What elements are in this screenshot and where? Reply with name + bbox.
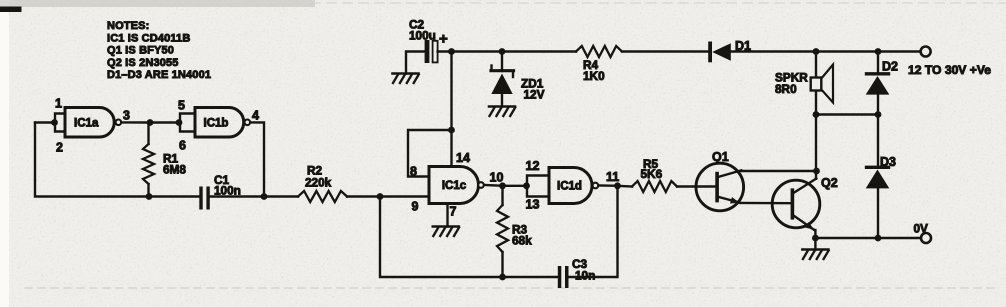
label R1 [163, 152, 186, 177]
node 3 junction [147, 119, 154, 126]
svg-text:14: 14 [456, 151, 470, 165]
pin 4 [252, 109, 259, 123]
wire D1 to +Ve terminal [731, 50, 921, 52]
wire node3 to IC1b [150, 121, 180, 123]
resistor R4 [576, 46, 622, 57]
svg-text:IC1b: IC1b [204, 118, 229, 130]
wire node10 to IC1d [503, 185, 528, 187]
label R5 [641, 157, 663, 181]
svg-text:12V: 12V [524, 88, 545, 102]
op-amp gate IC1c [429, 167, 484, 204]
pin 11 [606, 170, 619, 184]
ground IC1c pin7 [433, 227, 459, 237]
svg-text:D3: D3 [880, 155, 896, 169]
op-amp gate IC1b [195, 108, 250, 138]
pin 2 [56, 141, 63, 155]
label Q1 [712, 150, 729, 164]
zener diode ZD1 [491, 52, 514, 107]
svg-text:68k: 68k [512, 234, 532, 248]
wire node11 down to C3 [569, 186, 618, 277]
label D2 [882, 60, 898, 74]
pin 13 [526, 198, 540, 212]
resistor R2 [298, 191, 347, 202]
pin 6 [179, 139, 186, 153]
svg-text:1: 1 [55, 97, 62, 111]
node D3 bottom junction [875, 235, 882, 242]
svg-text:5: 5 [178, 99, 185, 113]
pin 10 [490, 171, 504, 185]
svg-text:IC1c: IC1c [442, 180, 467, 192]
op-amp gate IC1d [549, 168, 598, 204]
label R2 [305, 164, 332, 190]
label D1 [735, 39, 751, 53]
node IC1b output junction [261, 193, 268, 200]
node IC1b input junction [176, 119, 183, 126]
svg-text:100u: 100u [409, 29, 436, 43]
diode D3 [866, 115, 890, 239]
wire IC1a output [122, 121, 151, 123]
svg-text:Q1 IS BFY50: Q1 IS BFY50 [107, 45, 174, 57]
svg-text:12 TO 30V +Ve: 12 TO 30V +Ve [908, 63, 991, 77]
wire IC1a input bracket [55, 114, 65, 132]
node 10 junction [499, 182, 506, 189]
wire IC1b input bracket [180, 114, 195, 132]
wire R5 to Q1 base [677, 185, 716, 187]
label R3 [512, 223, 532, 248]
terminal +Ve [921, 47, 931, 57]
node IC1d input junction [523, 182, 530, 189]
svg-text:0V: 0V [914, 222, 929, 236]
node D2 top junction [875, 48, 882, 55]
svg-text:5K6: 5K6 [641, 167, 663, 181]
wire Q2 emitter to 0V [814, 230, 816, 238]
svg-text:D1–D3 ARE 1N4001: D1–D3 ARE 1N4001 [107, 69, 211, 81]
svg-text:D2: D2 [882, 60, 898, 74]
svg-text:3: 3 [123, 109, 130, 123]
node speaker top junction [813, 48, 820, 55]
resistor R3 [497, 186, 508, 277]
node 9 junction [377, 193, 384, 200]
svg-text:8R0: 8R0 [775, 82, 797, 96]
pin 12 [526, 159, 540, 173]
svg-text:Q1: Q1 [712, 150, 729, 164]
wire 0V rail [815, 237, 921, 239]
wire Q1 collector rail [741, 170, 817, 172]
node pin14 junction [448, 127, 455, 134]
diode D2 [866, 52, 890, 115]
wire left vertical feedback [35, 123, 199, 197]
label +Ve supply [908, 63, 991, 77]
wire pin7 ground stub [446, 204, 448, 227]
wire C2 ground stub [406, 52, 425, 74]
resistor R1 [143, 123, 154, 197]
svg-text:IC1a: IC1a [74, 118, 99, 130]
label SPKR [775, 71, 808, 97]
capacitor C2 [425, 40, 438, 63]
wire IC1d output [599, 184, 618, 187]
wire R2 to pin9 [347, 195, 429, 197]
wire supply to pins 14 and 8 [408, 52, 452, 177]
node R3 bottom junction [499, 274, 506, 281]
label C2 plus [439, 31, 448, 48]
node speaker bottom junction [813, 111, 820, 118]
wire C1 to R2 [210, 195, 298, 197]
label ZD1 [521, 77, 545, 102]
pin 7 [450, 205, 457, 219]
svg-text:Q2: Q2 [821, 176, 838, 190]
label 0V [914, 222, 929, 236]
capacitor C3 [558, 266, 569, 288]
transistor Q1 [696, 163, 744, 211]
label C1 [214, 173, 241, 198]
wire Q2 ground stub [814, 238, 816, 250]
wire top rail C2 to R4 [438, 50, 576, 52]
svg-text:12: 12 [526, 159, 540, 173]
pin 1 [55, 97, 62, 111]
label R4 [583, 58, 605, 83]
svg-text:6M8: 6M8 [163, 163, 186, 177]
speaker SPKR [811, 52, 833, 115]
wire IC1d input bracket [527, 176, 549, 197]
node collector junction [813, 168, 820, 175]
svg-text:9: 9 [412, 200, 419, 214]
svg-text:+: + [439, 31, 448, 48]
svg-text:13: 13 [526, 198, 540, 212]
svg-text:IC1d: IC1d [557, 181, 582, 193]
svg-text:Q2 IS 2N3055: Q2 IS 2N3055 [107, 57, 179, 69]
ground Q2 emitter [802, 250, 828, 260]
wire speaker bottom rail [816, 113, 878, 115]
ground ZD1 [489, 107, 515, 117]
node 11 junction [614, 182, 621, 189]
svg-text:10: 10 [490, 171, 504, 185]
node IC1a input junction [35, 119, 58, 126]
svg-text:220k: 220k [305, 176, 332, 190]
svg-text:7: 7 [450, 205, 457, 219]
svg-text:IC1 IS CD4011B: IC1 IS CD4011B [107, 32, 190, 44]
wire IC1c output [484, 184, 502, 187]
svg-text:2: 2 [56, 141, 63, 155]
pin 5 [178, 99, 185, 113]
svg-text:NOTES:: NOTES: [107, 20, 149, 32]
node Q2 emitter junction [812, 235, 819, 242]
node C2 junction [448, 48, 455, 55]
svg-text:4: 4 [252, 109, 259, 123]
capacitor C1 [199, 187, 209, 210]
pin 9 [412, 200, 419, 214]
pin 3 [123, 109, 130, 123]
terminal 0V [921, 233, 931, 243]
pin 14 [456, 151, 470, 165]
svg-text:6: 6 [179, 139, 186, 153]
node R1 bottom junction [146, 193, 153, 200]
transistor Q2 [772, 179, 820, 231]
svg-text:11: 11 [606, 170, 619, 184]
svg-text:10n: 10n [575, 269, 595, 283]
resistor R5 [618, 181, 678, 192]
label D3 [880, 155, 896, 169]
op-amp gate IC1a [65, 108, 121, 138]
label C3 [572, 257, 595, 283]
label C2 [409, 18, 436, 43]
diode D1 [708, 42, 731, 63]
label Q2 [821, 176, 838, 190]
node D2 bottom junction [875, 111, 882, 118]
wire collector vertical [815, 115, 817, 179]
node ZD1 junction [499, 48, 506, 55]
svg-text:1K0: 1K0 [583, 69, 605, 83]
wire R4 to D1 [622, 50, 709, 52]
notes text block [107, 20, 211, 81]
wire Q1 emitter to Q2 base [740, 202, 791, 205]
wire IC1b output down [250, 122, 264, 196]
pin 8 [410, 165, 417, 179]
ground C2 [393, 74, 419, 84]
wire node9 down to C3 rail [380, 197, 558, 278]
